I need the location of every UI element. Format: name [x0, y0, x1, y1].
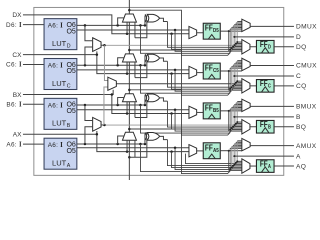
wire mux to FF B: [250, 126, 257, 128]
wire FF B output BQ: [274, 126, 294, 128]
output mux AMUX: [242, 138, 250, 150]
svg-text:AQ: AQ: [296, 163, 306, 170]
svg-text:A5: A5: [213, 148, 219, 154]
wire O6 branch into F7MUX AB upper input: [85, 105, 92, 120]
svg-text:C: C: [67, 83, 71, 89]
svg-text:FF: FF: [205, 64, 213, 73]
svg-text:BMUX: BMUX: [296, 104, 317, 111]
wire mux to FF D5: [197, 32, 204, 34]
svg-text:FF: FF: [260, 159, 268, 168]
wire CIN carry input (bottom): [128, 140, 130, 180]
svg-text:O5: O5: [66, 146, 75, 155]
svg-text:AMUX: AMUX: [296, 143, 317, 150]
wire mux to FF C5: [197, 72, 204, 74]
svg-text:D6: I: D6: I: [6, 22, 22, 29]
LUT B (LUT6) block: [44, 98, 77, 129]
outer slice boundary box: [34, 7, 284, 175]
wire carry chain CIN into D: [128, 22, 130, 54]
wire mux to FF D: [250, 46, 257, 48]
wire MUXCY D DI leg: [126, 22, 128, 34]
XOR gate XORCY B: [147, 94, 159, 102]
wire O6 branch into F7MUX DC upper input: [85, 25, 92, 40]
output mux BMUX: [242, 99, 250, 111]
XOR gate XORCY A: [147, 133, 159, 141]
flip-flop FF D: [256, 40, 274, 53]
wire FF D output DQ: [274, 46, 294, 48]
wire B6:1 LUT inputs: [23, 103, 44, 105]
wire O6 branch into F7MUX DC lower input: [85, 47, 92, 65]
mux for FF A input: [242, 159, 250, 173]
XOR gate XORCY D: [147, 14, 159, 22]
wire B direct output: [234, 116, 294, 118]
svg-text:DX: DX: [12, 12, 22, 19]
svg-text:LUT: LUT: [52, 119, 67, 128]
wire AX bypass input: [23, 133, 97, 135]
wire bundle routing C outputs: [116, 81, 237, 84]
svg-text:A: A: [268, 164, 271, 170]
wire CMUX output: [250, 64, 294, 66]
wire DMUX output: [250, 25, 294, 27]
wire D6:1 LUT inputs: [23, 24, 44, 26]
svg-text:A6: I: A6: I: [6, 141, 22, 148]
wire F7MUX AB output: [101, 124, 104, 126]
mux for FF B5 input: [189, 106, 197, 118]
mux for FF D5 input: [189, 26, 197, 38]
svg-text:B6: I: B6: I: [6, 102, 22, 109]
wire MUXCY B CIN tap leg: [134, 102, 136, 118]
wire O6 of LUT A: [77, 143, 145, 145]
svg-text:C6: I: C6: I: [6, 62, 22, 69]
wire bundle routing B outputs: [104, 123, 237, 126]
wire XOR A sum output: [160, 136, 168, 139]
wire MUXCY D select from O6: [118, 18, 125, 26]
wire O5 of LUT A: [77, 147, 189, 149]
wire FF A output AQ: [274, 165, 294, 167]
svg-text:FF: FF: [205, 24, 213, 33]
wire BX bypass input: [23, 90, 113, 95]
svg-text:D: D: [296, 34, 301, 41]
wire C6:1 LUT inputs: [23, 63, 44, 65]
wire FF C5 output Q: [220, 70, 228, 72]
svg-text:FF: FF: [260, 120, 268, 129]
XOR gate XORCY C: [147, 54, 159, 62]
wire A6:1 LUT inputs: [23, 143, 44, 145]
wire carry chain CIN into B: [128, 102, 130, 132]
svg-text:B5: B5: [213, 108, 219, 114]
svg-text:A6: I: A6: I: [48, 23, 63, 30]
wire CIN tap to XOR D: [135, 21, 149, 38]
flip-flop FF C: [256, 80, 274, 93]
carry mux MUXCY D: [122, 14, 136, 22]
svg-text:FF: FF: [260, 79, 268, 88]
wire O6 to XOR C input: [145, 56, 148, 65]
wire mux to FF A: [250, 165, 257, 167]
svg-text:O5: O5: [66, 66, 75, 75]
wire O6 to XOR A input: [145, 134, 148, 144]
svg-text:FF: FF: [205, 103, 213, 112]
LUT A (LUT6) block: [44, 138, 77, 169]
mux for FF C input: [242, 79, 250, 93]
wire MUXCY A CIN tap leg: [134, 140, 136, 157]
mux for FF D input: [242, 40, 250, 54]
wire DX bypass input: [23, 15, 189, 34]
wire CIN tap to XOR C: [135, 61, 149, 78]
svg-text:LUT: LUT: [52, 39, 67, 48]
svg-text:LUT: LUT: [52, 79, 67, 88]
svg-text:O5: O5: [66, 106, 75, 115]
svg-text:BQ: BQ: [296, 124, 306, 131]
wire MUXCY A select from O6: [118, 136, 125, 144]
wire carry chain CIN into C: [128, 62, 130, 94]
wire MUXCY B DI leg: [126, 102, 128, 114]
svg-text:A6: I: A6: I: [48, 63, 63, 70]
wire F7MUX AB output up to F8MUX: [104, 87, 108, 125]
output mux DMUX: [242, 19, 250, 31]
wire CIN tap to XOR B: [135, 101, 149, 118]
svg-text:DMUX: DMUX: [296, 24, 317, 31]
svg-text:CMUX: CMUX: [296, 63, 317, 70]
wire MUXCY B select from O6: [118, 98, 125, 106]
wire FF B5 output Q: [220, 110, 228, 112]
wire MUXCY C CIN tap leg: [134, 62, 136, 78]
flip-flop FF B: [256, 120, 274, 133]
LUT D (LUT6) block: [44, 19, 77, 50]
wire XOR B sum output: [160, 98, 168, 101]
wire CX bypass input: [23, 54, 97, 56]
svg-text:A6: I: A6: I: [48, 142, 63, 149]
wire O5 of LUT B: [77, 109, 189, 111]
svg-text:A: A: [296, 153, 301, 160]
wire mux to FF C: [250, 85, 257, 87]
mux for FF C5 input: [189, 66, 197, 78]
wire O6 of LUT C: [77, 64, 145, 66]
wire mux to FF A5: [197, 150, 204, 152]
svg-text:C5: C5: [213, 68, 219, 74]
wire AMUX output: [250, 145, 294, 147]
wire XOR C sum output: [160, 58, 168, 61]
svg-text:B: B: [296, 114, 301, 121]
carry mux MUXCY C: [122, 54, 136, 62]
svg-text:BX: BX: [13, 92, 22, 99]
wire O5 of LUT C: [77, 69, 189, 71]
wire O5 of LUT D: [77, 29, 189, 31]
wire FF A5 output Q: [220, 150, 228, 152]
wire C direct output: [234, 75, 294, 77]
wire F7MUX DC output down to F8MUX: [104, 45, 107, 80]
wire mux to FF B5: [197, 111, 204, 113]
wire MUXCY A DI leg: [126, 140, 128, 151]
wire CIN tap to XOR A: [129, 139, 149, 157]
svg-text:D: D: [67, 43, 71, 49]
mux for FF A5 input: [189, 145, 197, 157]
wire bundle routing D outputs: [104, 43, 237, 46]
svg-text:FF: FF: [260, 40, 268, 49]
wire O6 of LUT D: [77, 24, 145, 26]
svg-text:CX: CX: [12, 52, 22, 59]
wire XOR D sum output: [160, 18, 168, 21]
svg-text:D5: D5: [213, 28, 219, 34]
wire F7MUX DC output: [101, 44, 104, 46]
wire O6 to XOR B input: [145, 96, 148, 105]
wire MUXCY C select from O6: [118, 58, 125, 65]
wire bundle routing A outputs: [185, 154, 237, 164]
wire MUXCY D CIN tap leg: [134, 22, 136, 38]
carry mux MUXCY A: [122, 132, 136, 140]
wire FF D5 output Q: [220, 30, 228, 32]
carry mux MUXCY B: [122, 94, 136, 102]
svg-text:A6: I: A6: I: [48, 102, 63, 109]
svg-text:B: B: [268, 125, 271, 131]
svg-text:CQ: CQ: [296, 83, 307, 90]
flip-flop FF C5: [203, 63, 220, 79]
flip-flop FF A: [256, 160, 274, 173]
svg-text:FF: FF: [205, 143, 213, 152]
mux F8MUX: [108, 77, 117, 90]
svg-text:D: D: [268, 45, 271, 51]
wire O6 branch into F7MUX AB lower input: [85, 127, 92, 144]
wire FF C output CQ: [274, 85, 294, 87]
svg-text:DQ: DQ: [296, 44, 307, 51]
svg-text:AX: AX: [13, 132, 22, 139]
wire BMUX output: [250, 105, 294, 107]
mux F7MUX AB: [93, 117, 101, 131]
svg-text:LUT: LUT: [52, 159, 67, 168]
wire O6 of LUT B: [77, 104, 145, 106]
mux F7MUX DC: [93, 38, 101, 52]
wire D direct output: [234, 36, 294, 38]
flip-flop FF D5: [203, 23, 220, 39]
svg-text:O5: O5: [66, 26, 75, 35]
flip-flop FF B5: [203, 103, 220, 119]
svg-text:B: B: [67, 123, 71, 129]
flip-flop FF A5: [203, 143, 220, 159]
svg-text:C: C: [296, 73, 301, 80]
mux for FF B input: [242, 120, 250, 134]
wire MUXCY C DI leg: [126, 62, 128, 74]
svg-text:C: C: [268, 84, 271, 90]
output mux CMUX: [242, 58, 250, 70]
wire A direct output: [234, 155, 294, 157]
wire COUT carry chain out (top): [128, 0, 130, 14]
svg-text:A: A: [67, 163, 71, 169]
LUT C (LUT6) block: [44, 59, 77, 90]
wire O6 to XOR D input: [145, 16, 148, 25]
